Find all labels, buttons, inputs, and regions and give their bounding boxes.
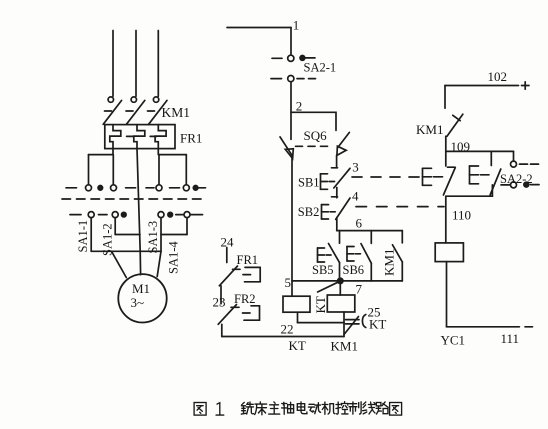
limit switch SQ6 left contact [280, 137, 293, 159]
motor M1 circle [118, 274, 166, 322]
label KT (coil) [289, 338, 306, 353]
node 22 bottom rail [222, 336, 344, 338]
switch SA1 row2 bridge dot [122, 212, 127, 217]
wire node 2 branch right [291, 112, 336, 130]
switch SA1 row2 terminal SA1-2 [112, 212, 118, 218]
label SA2-2 [500, 172, 533, 186]
node 110 label [452, 208, 471, 223]
label KM1 (aux, rotated) [382, 249, 397, 276]
switch SA1 row1 terminal a [86, 185, 92, 191]
svg-text:7: 7 [356, 282, 363, 297]
switch SA2-1 row2 [271, 76, 316, 82]
svg-text:SA1-4: SA1-4 [167, 241, 181, 274]
node 109 label [451, 139, 471, 154]
label SA1-2 [101, 223, 115, 256]
pushbutton SB2 linked NC contact [490, 169, 501, 195]
svg-text:110: 110 [452, 208, 471, 223]
wire phase L1 vertical [112, 31, 114, 97]
pushbutton SB2 operator [322, 205, 336, 219]
wire KT coil bottom link [298, 322, 345, 324]
switch SA1 row1 mid dashes [126, 187, 154, 189]
switch SA1 row2 terminal SA1-3 [158, 212, 164, 218]
switch SA1 row1 bridge dot [98, 186, 103, 191]
thermal relay FR1 NC contact [219, 266, 240, 286]
svg-text:FR1: FR1 [180, 131, 202, 146]
FR1 heater element 1 [110, 125, 121, 149]
label SA1-1 [76, 220, 90, 253]
switch SA1 row1 bridge dot right [193, 186, 198, 191]
wire branch to SB2 linked contact [490, 151, 492, 165]
relay KT instantaneous contact blade [318, 281, 340, 292]
node 111 label [501, 331, 520, 346]
label KM1 (right contact) [416, 122, 443, 137]
caption 图1 铣床主轴电动机控制线路图 [194, 402, 402, 415]
wire motor lead left [112, 251, 127, 277]
label SA2-1 [304, 60, 337, 74]
time relay KT coil [283, 281, 310, 323]
wire FR1 middle exit down to motor (long) [137, 149, 141, 275]
svg-text:M1: M1 [132, 281, 150, 296]
svg-text:6: 6 [356, 216, 363, 231]
pushbutton SB6 contact [361, 231, 371, 281]
svg-text:FR1: FR1 [237, 253, 259, 267]
node 5 label [285, 275, 292, 290]
wire contact bottoms to node 110 [446, 185, 493, 196]
wire SA1-3 drop [160, 218, 162, 252]
contactor KM1 NO contact (right) [445, 86, 463, 152]
FR1 heater element 3 [155, 125, 166, 149]
node 23 label [213, 295, 226, 310]
pushbutton SB1 linked NC contact [443, 151, 455, 195]
wire main vertical SQ6 to node5 [291, 159, 293, 281]
label SA1-4 [167, 241, 181, 274]
pushbutton SB1 operator [321, 174, 335, 190]
label FR2 (contact) [234, 292, 256, 306]
svg-text:KM1: KM1 [382, 249, 397, 276]
node 2 label [296, 98, 303, 113]
svg-text:5: 5 [285, 275, 292, 290]
pushbutton SB2 contact [332, 197, 351, 220]
node 4 label [352, 189, 359, 204]
contactor KM1 main contact pole 2 [126, 97, 144, 124]
label KM1 (coil) [331, 339, 358, 354]
svg-text:23: 23 [213, 295, 226, 310]
switch SA2-1 row1 dot [300, 56, 305, 61]
switch SA1 row2 dash right [176, 214, 183, 216]
wire upper rung right [161, 234, 187, 236]
label FR1 (contact) [237, 253, 259, 267]
SQ6 link dashes [296, 145, 332, 147]
svg-text:SB1: SB1 [298, 176, 320, 190]
wire upper rung left [115, 234, 140, 236]
svg-text:SB6: SB6 [343, 263, 365, 277]
thermal relay FR1 box [105, 125, 175, 149]
switch SA1 row1 terminal c [156, 185, 162, 191]
label FR1 (heater) [180, 131, 202, 146]
svg-text:111: 111 [501, 331, 520, 346]
switch SA1 row1 left dash [66, 187, 77, 189]
svg-text:2: 2 [296, 98, 303, 113]
SB2 link dashes (row 2) [356, 206, 444, 208]
label SB5 [312, 263, 334, 277]
switch SA2-2 lower terminal [501, 182, 539, 188]
wire YC1 to node 111 [447, 262, 520, 327]
svg-text:KT: KT [289, 338, 306, 353]
FR1 heater element 2 [134, 125, 145, 149]
switch SA1 row2 left dash [70, 214, 81, 216]
junction node 7 dot [338, 278, 343, 283]
switch SA2-1 row1 [272, 55, 315, 61]
switch SA2-2 upper terminal [511, 161, 539, 167]
label KT (delayed contact) [369, 317, 386, 332]
node 7 label [356, 282, 363, 297]
SB2 linked contact operator [470, 166, 490, 184]
svg-text:SQ6: SQ6 [304, 128, 328, 143]
svg-text:4: 4 [352, 189, 359, 204]
time relay KT delayed contact (node 25) [344, 315, 366, 335]
limit switch SQ6 right contact [337, 132, 350, 155]
svg-text:SA1-3: SA1-3 [146, 221, 160, 254]
wire lower rung [91, 250, 161, 252]
svg-text:KT: KT [369, 317, 386, 332]
plus mark [522, 82, 530, 89]
switch SA1 row2 terminal SA1-1 [88, 212, 94, 218]
svg-text:KM1: KM1 [331, 339, 358, 354]
label SB6 [343, 263, 365, 277]
node 24 label [221, 234, 235, 249]
SB1 link dashes (row 1) [352, 176, 420, 178]
contactor KM1 main contact pole 1 [103, 97, 121, 124]
wire motor lead right [157, 251, 161, 276]
svg-text:FR2: FR2 [234, 292, 256, 306]
switch SA1 row1 right stub [198, 187, 205, 189]
label SB2 [298, 205, 320, 219]
wire SB1 to SB2 [336, 188, 338, 198]
svg-text:102: 102 [488, 69, 508, 84]
wire node 110 vertical [445, 196, 447, 243]
KM1 main contacts mechanical link (dashed) [105, 110, 155, 112]
wire SA1-4 drop [186, 218, 188, 235]
wire node 102 [445, 85, 519, 87]
pushbutton SB6 operator [347, 247, 360, 262]
wire SB2 to node 6 rail [336, 218, 338, 231]
node 25 label [368, 305, 381, 320]
FR1 trip operator hook [243, 267, 260, 281]
switch SA1 row1 dash [170, 187, 180, 189]
svg-text:1: 1 [293, 18, 300, 33]
label SB1 [298, 176, 320, 190]
svg-text:SA2-2: SA2-2 [500, 172, 533, 186]
switch SA1 row2 terminal SA1-4 [184, 212, 190, 218]
svg-text:3: 3 [352, 160, 359, 175]
pushbutton SB5 contact [329, 231, 340, 281]
node 102 label [488, 69, 508, 84]
wire node 23 stub [220, 286, 222, 304]
wire FR1 left exit split [89, 149, 114, 185]
node 3 label [352, 160, 359, 175]
switch SA1 row2 bridge dot right [168, 212, 173, 217]
svg-text:SB5: SB5 [312, 263, 334, 277]
SA1 mechanical link line (long dashed) [62, 198, 202, 200]
wire SA2-1 to node 2 [290, 82, 292, 140]
thermal relay FR2 NC contact [218, 305, 239, 325]
switch SA1 row2 right stub [190, 214, 202, 216]
wire node 1 horizontal [227, 28, 291, 56]
label KT (rotated, instantaneous contact) [313, 296, 328, 313]
switch SA1 row2 dash [99, 214, 108, 216]
node 109 rail [446, 151, 514, 161]
node 22 label [281, 322, 294, 337]
contactor KM1 aux contact [393, 231, 403, 281]
label YC1 [441, 333, 466, 348]
svg-text:KM1: KM1 [416, 122, 443, 137]
node 111 stub dash [525, 326, 533, 328]
electromagnet YC1 coil [435, 243, 463, 262]
wire node 6 rail [337, 230, 403, 232]
switch SA1 row1 terminal b [111, 185, 117, 191]
pushbutton SB5 operator [318, 248, 332, 262]
wire phase L2 vertical [135, 31, 137, 97]
svg-text:22: 22 [281, 322, 294, 337]
wire phase L3 vertical [157, 31, 159, 97]
contactor KM1 coil [327, 281, 355, 337]
wire SA1-2 drop [114, 218, 116, 235]
wire FR1 right exit split [158, 149, 186, 185]
svg-text:KM1: KM1 [162, 105, 191, 120]
svg-text:SB2: SB2 [298, 205, 320, 219]
SB1 linked contact operator [423, 168, 443, 185]
label SQ6 [304, 128, 328, 143]
switch SA1 row1 terminal d [183, 185, 189, 191]
switch SA2-2 dot [524, 182, 529, 187]
wire SA1-1 drop [90, 218, 92, 252]
svg-text:SA2-1: SA2-1 [304, 60, 337, 74]
label SA1-3 [146, 221, 160, 254]
pushbutton SB1 contact [332, 168, 351, 188]
node 6 label [356, 216, 363, 231]
svg-text:SA1-1: SA1-1 [76, 220, 90, 253]
label KM1 (main contacts) [162, 105, 191, 120]
svg-text:KT: KT [313, 296, 328, 313]
contactor KM1 main contact pole 3 [149, 97, 167, 124]
FR2 trip operator hook [243, 306, 260, 320]
wire SQ6 right to node 3 [336, 155, 338, 168]
label M1 3~ [131, 281, 151, 310]
wire node 24 stub [226, 248, 228, 263]
wire FR2 to bottom rail [221, 324, 223, 336]
node 5 rail [292, 280, 402, 282]
FR1 heater link dashes [127, 135, 157, 137]
svg-text:YC1: YC1 [441, 333, 466, 348]
svg-text:3~: 3~ [131, 295, 145, 310]
node 1 label [293, 18, 300, 33]
